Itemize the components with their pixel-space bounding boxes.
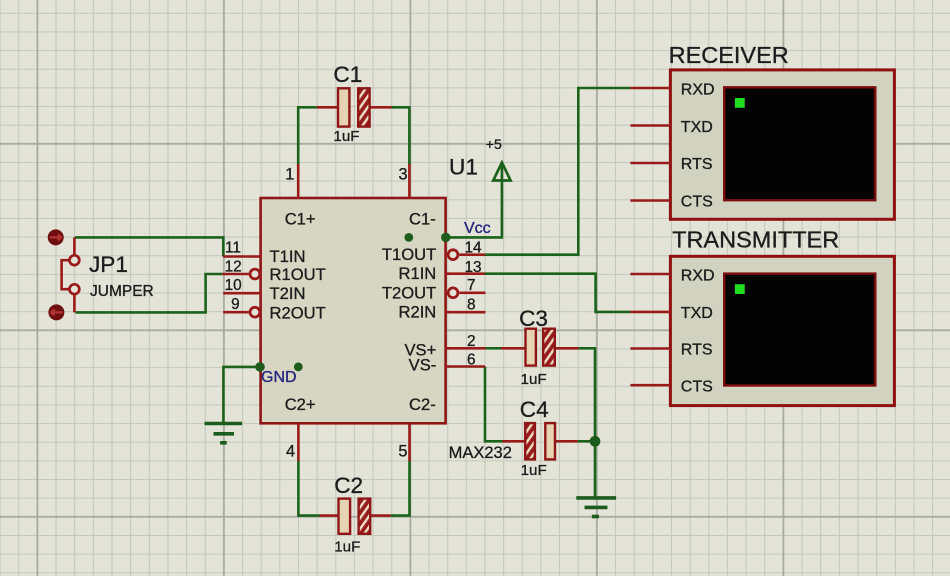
svg-text:R1IN: R1IN [398, 264, 436, 283]
svg-text:RTS: RTS [681, 156, 713, 173]
svg-text:CTS: CTS [681, 379, 713, 396]
wire: U1 pin 13 to TRANSMITTER TXD [485, 274, 631, 312]
pin 6 VS- [446, 352, 485, 369]
TRANSMITTER virtual terminal [670, 227, 894, 406]
svg-text:T2IN: T2IN [270, 284, 306, 303]
node: hidden ground pin dot inside U1 [294, 363, 303, 372]
RECEIVER pin CTS [630, 199, 670, 202]
svg-text:RECEIVER: RECEIVER [669, 42, 789, 68]
svg-text:1uF: 1uF [333, 128, 359, 145]
ground (left, under U1 GND) [205, 424, 243, 443]
pin 10 T2IN [223, 277, 260, 294]
svg-text:RXD: RXD [681, 81, 715, 98]
svg-text:MAX232: MAX232 [449, 444, 512, 462]
pin 2 VS+ [446, 333, 486, 350]
TRANSMITTER pin TXD [630, 311, 670, 314]
RECEIVER pin RXD [630, 87, 670, 90]
svg-text:11: 11 [225, 240, 241, 257]
node: Vcc junction on U1 edge [441, 233, 451, 243]
svg-text:C1: C1 [333, 62, 362, 87]
wire: C3 right to ground rail [579, 348, 595, 441]
svg-text:1: 1 [285, 166, 294, 184]
svg-text:JUMPER: JUMPER [90, 283, 154, 300]
svg-text:13: 13 [465, 259, 482, 276]
chip U1 body [261, 198, 446, 423]
svg-text:TXD: TXD [681, 305, 713, 322]
node: C4/ground junction [590, 436, 601, 447]
svg-text:+5: +5 [486, 136, 502, 152]
capacitor C3 [501, 306, 579, 388]
pin 7 T2OUT (bubble) [448, 277, 485, 298]
wire: U1 GND to ground symbol [223, 367, 259, 423]
svg-text:6: 6 [467, 352, 476, 369]
svg-text:12: 12 [225, 258, 242, 275]
RECEIVER virtual terminal [669, 42, 895, 219]
power +5 symbol [486, 136, 511, 181]
svg-text:R2IN: R2IN [398, 303, 436, 322]
svg-text:T1IN: T1IN [270, 247, 306, 266]
svg-text:T2OUT: T2OUT [382, 283, 436, 302]
wire: C4 right to ground junction [578, 440, 595, 443]
svg-text:9: 9 [231, 296, 240, 313]
svg-text:Vcc: Vcc [464, 220, 491, 237]
wire: U1 pin 1 to C1 left [298, 107, 317, 164]
svg-text:C4: C4 [520, 397, 549, 422]
svg-text:1uF: 1uF [521, 462, 547, 479]
svg-text:R2OUT: R2OUT [270, 303, 326, 322]
pin 1 C1+ [285, 164, 298, 198]
svg-text:C2-: C2- [409, 395, 436, 414]
wire: Vcc net from U1 to +5 power [446, 164, 502, 237]
svg-text:5: 5 [398, 443, 407, 461]
svg-text:3: 3 [399, 166, 408, 184]
svg-text:RTS: RTS [681, 342, 713, 359]
svg-text:1uF: 1uF [334, 539, 360, 556]
svg-text:JP1: JP1 [89, 252, 128, 277]
capacitor C4 [503, 397, 578, 479]
svg-text:C2+: C2+ [285, 395, 316, 414]
capacitor C1 [317, 62, 392, 145]
terminal (output, bottom left) [48, 304, 64, 320]
terminal (input, top left) [48, 229, 64, 245]
wire: U1 pin 6 to C4 left [485, 367, 503, 442]
wire: U1 pin 5 to C2 right [391, 461, 410, 516]
svg-text:4: 4 [286, 443, 295, 461]
svg-text:GND: GND [261, 369, 297, 386]
svg-text:VS-: VS- [409, 355, 437, 374]
svg-text:U1: U1 [449, 155, 478, 180]
svg-text:7: 7 [467, 277, 476, 294]
svg-text:R1OUT: R1OUT [270, 265, 326, 284]
TRANSMITTER pin CTS [630, 384, 670, 387]
wire: JP1 bottom pin to U1 pin 12 [76, 274, 223, 312]
svg-text:2: 2 [467, 333, 476, 350]
svg-text:8: 8 [467, 296, 476, 313]
capacitor C2 [320, 473, 391, 556]
wire: U1 pin 3 to C1 right [392, 107, 410, 164]
svg-text:T1OUT: T1OUT [382, 245, 436, 264]
pin 14 T1OUT (bubble) [448, 240, 485, 260]
pin 8 R2IN [446, 296, 486, 313]
svg-text:TRANSMITTER: TRANSMITTER [672, 227, 839, 253]
svg-text:C1+: C1+ [285, 210, 316, 229]
svg-text:14: 14 [465, 240, 483, 257]
svg-text:1uF: 1uF [521, 371, 547, 388]
ground (right, under C4) [576, 498, 616, 517]
wire: U1 pin 4 to C2 left [298, 461, 319, 516]
pin 13 R1IN [446, 259, 485, 276]
wire: JP1 top pin to U1 pin 11 [75, 237, 224, 256]
RECEIVER pin TXD [630, 124, 670, 127]
pin 5 C2- [398, 423, 409, 461]
svg-text:RXD: RXD [681, 267, 715, 284]
jumper JP1 [62, 237, 154, 312]
pin 3 C1- [399, 164, 410, 198]
node: hidden power pin dot inside U1 [404, 233, 413, 242]
svg-text:C1-: C1- [409, 210, 436, 229]
RECEIVER pin RTS [630, 162, 670, 165]
svg-text:TXD: TXD [681, 119, 713, 136]
wire: junction to ground symbol [594, 441, 597, 496]
svg-text:10: 10 [225, 277, 242, 294]
pin 11 T1IN [223, 240, 260, 257]
wire: U1 pin 2 to C3 left [486, 347, 502, 350]
pin 12 R1OUT (bubble) [222, 258, 260, 279]
TRANSMITTER pin RXD [630, 273, 670, 276]
svg-text:C2: C2 [334, 473, 363, 498]
wire: U1 pin 14 to RECEIVER RXD [485, 88, 631, 255]
svg-text:CTS: CTS [681, 194, 713, 211]
svg-text:C3: C3 [519, 306, 548, 331]
pin 4 C2+ [286, 423, 298, 461]
TRANSMITTER pin RTS [630, 347, 670, 350]
node: GND junction on U1 edge [255, 362, 265, 372]
pin 9 R2OUT (bubble) [223, 296, 260, 317]
